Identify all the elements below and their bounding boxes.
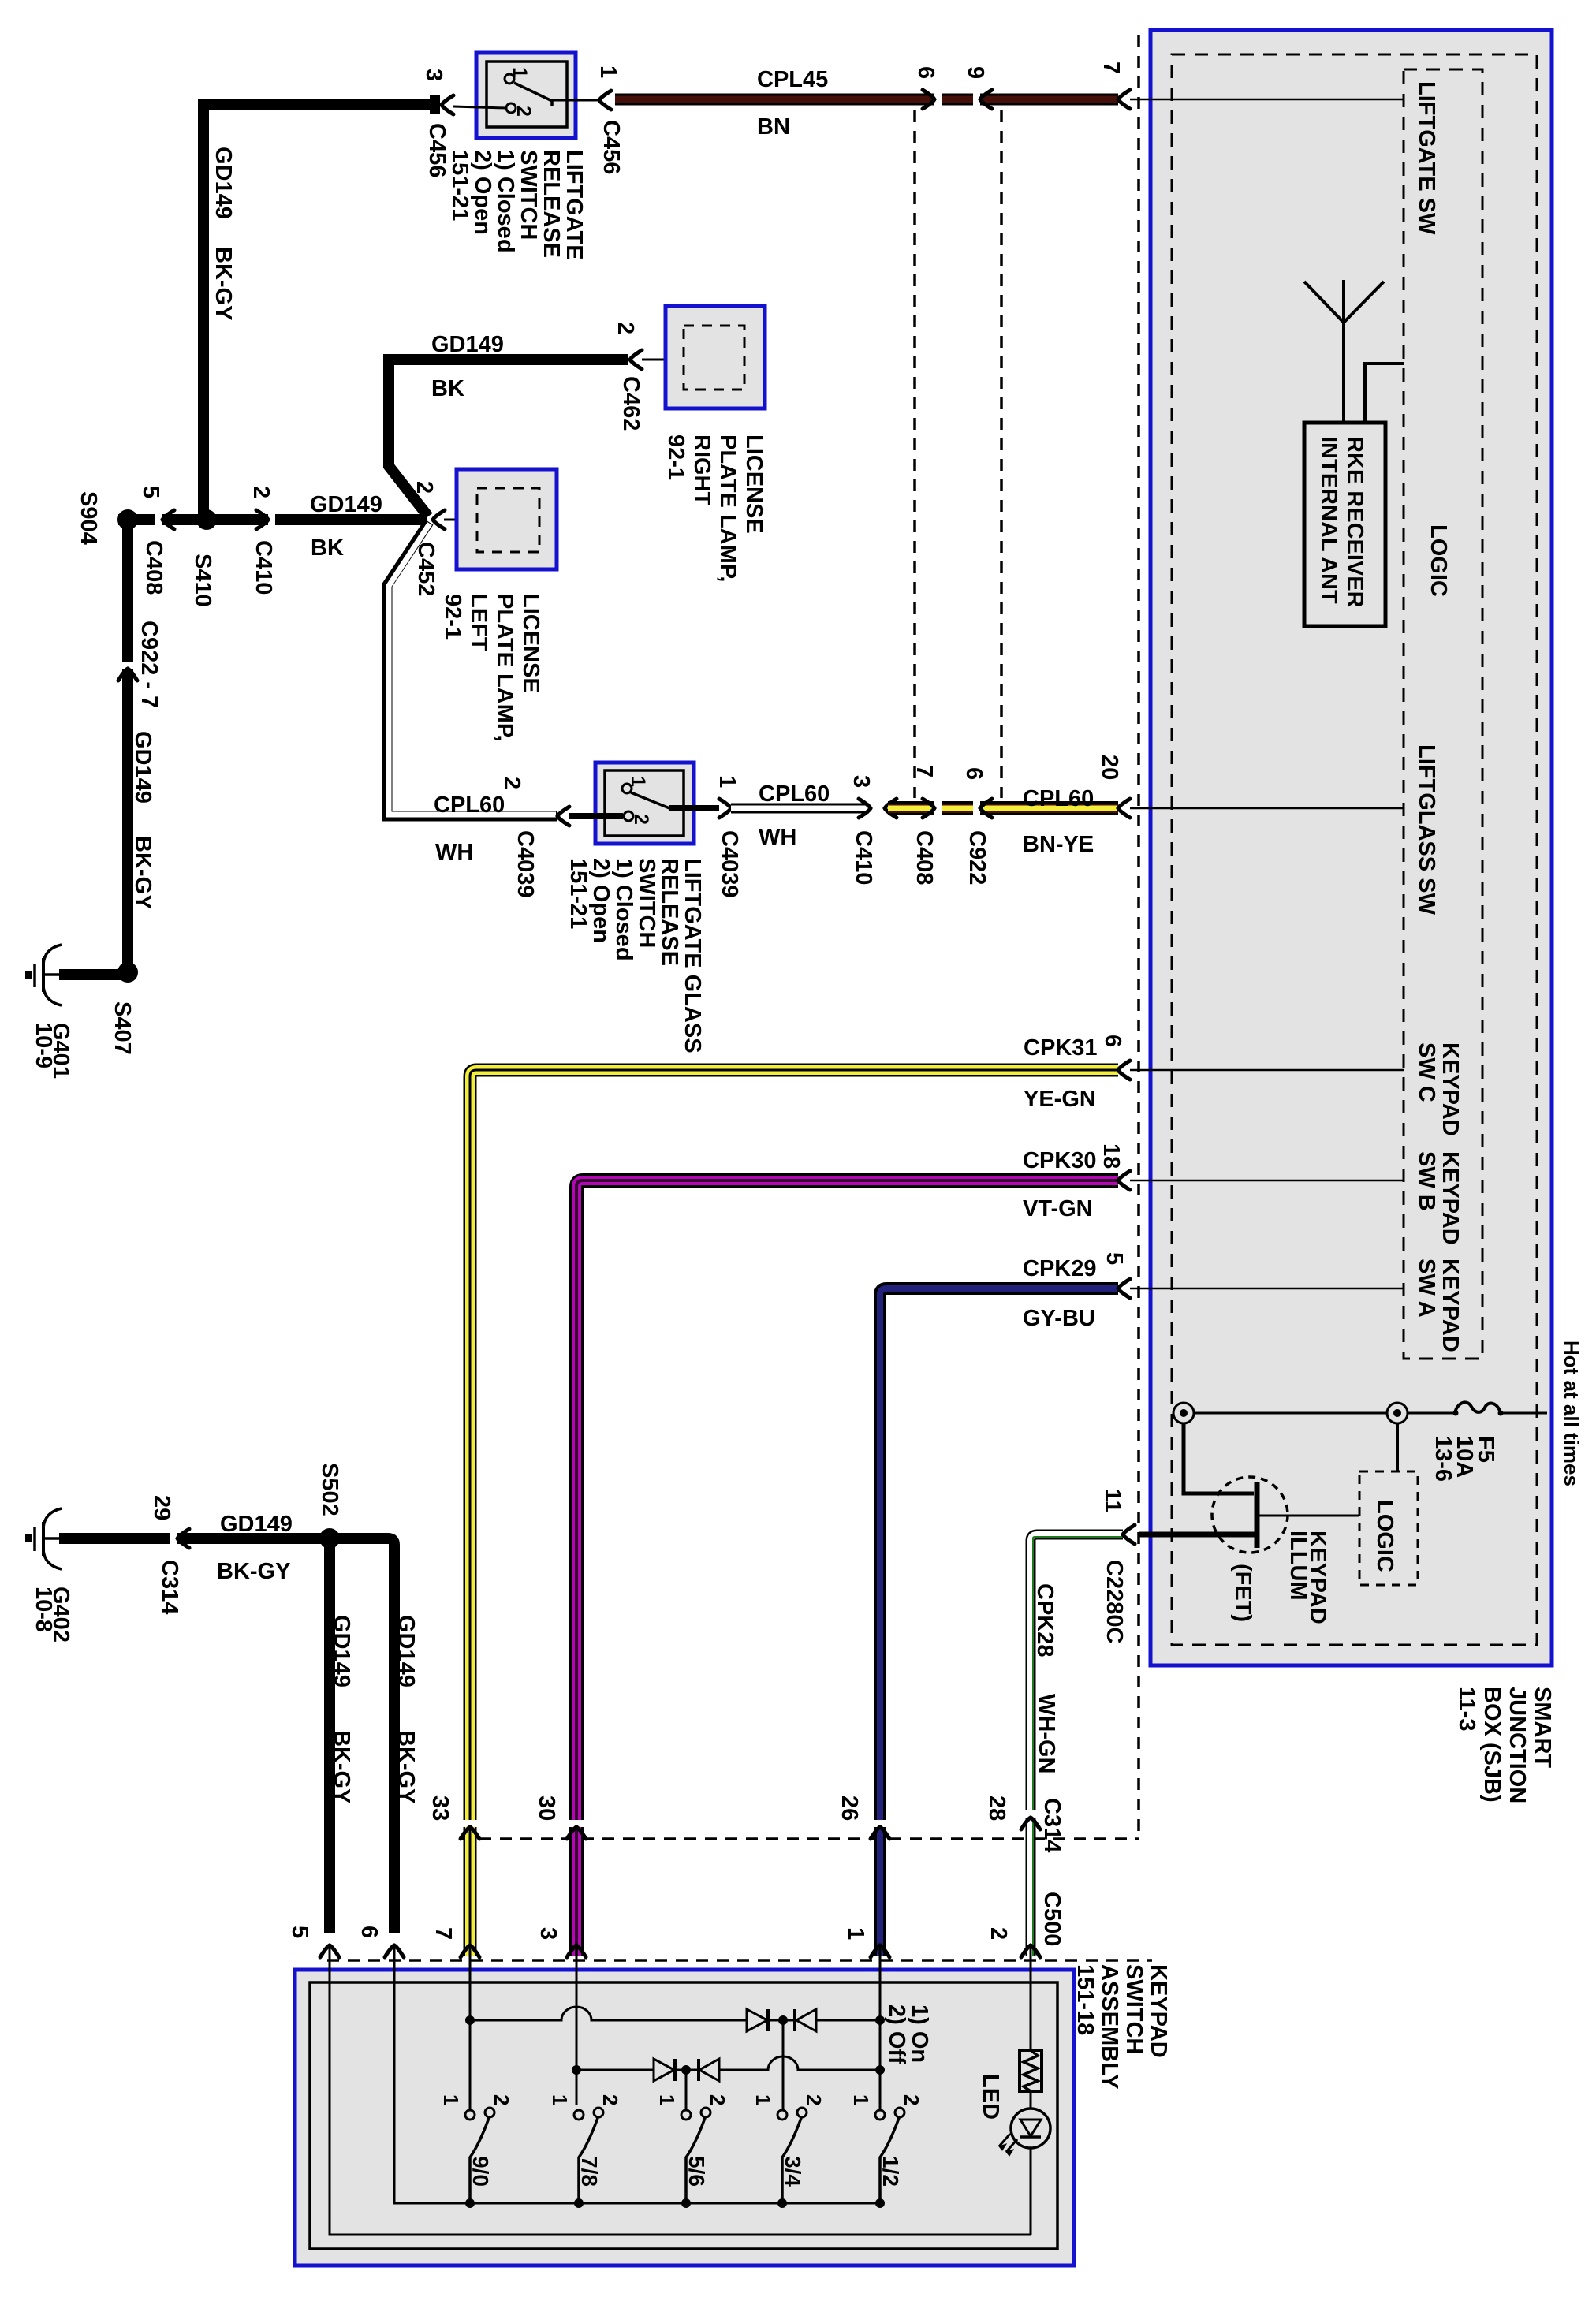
connector break 9 C922 — [973, 91, 980, 107]
svg-text:S502: S502 — [317, 1463, 342, 1516]
svg-text:5: 5 — [138, 486, 163, 498]
wire bus1 tap to switch 3/4 — [782, 2020, 785, 2110]
svg-text:LIFTGLASS SW: LIFTGLASS SW — [1414, 744, 1439, 915]
connector C408 pin 5 — [155, 511, 162, 528]
svg-text:C452: C452 — [413, 542, 438, 596]
wire to switch pin2 — [453, 106, 506, 108]
svg-text:7: 7 — [431, 1927, 456, 1940]
svg-text:18: 18 — [1098, 1143, 1124, 1169]
svg-text:2: 2 — [613, 322, 638, 334]
wire CPK28 WH-GN — [1031, 1534, 1123, 1956]
svg-text:7: 7 — [1098, 62, 1124, 74]
svg-text:GY-BU: GY-BU — [1023, 1306, 1095, 1331]
smart junction box SJB outline — [1150, 30, 1552, 1665]
connector break 28 C314 — [1024, 1810, 1038, 1818]
svg-text:(FET): (FET) — [1230, 1564, 1255, 1622]
node bus1-990 — [778, 2015, 788, 2025]
svg-text:C314: C314 — [157, 1560, 182, 1614]
wire pin2 LED feed — [1030, 1945, 1032, 2050]
svg-text:CPK30: CPK30 — [1023, 1148, 1097, 1173]
diode D3 — [654, 2059, 674, 2081]
dashed keypad boundary line — [327, 1959, 1152, 1962]
svg-text:7/8: 7/8 — [577, 2156, 602, 2187]
wire T1-T2 — [1194, 1412, 1387, 1415]
keypad switch assembly box — [295, 1970, 1074, 2265]
keypad pin 6 — [385, 1945, 404, 1957]
svg-text:3/4: 3/4 — [781, 2156, 805, 2187]
svg-text:C4039: C4039 — [513, 830, 538, 897]
svg-text:2: 2 — [412, 481, 437, 494]
svg-text:2: 2 — [598, 2094, 622, 2105]
node bus2-870 — [681, 2065, 691, 2075]
svg-text:BK-GY: BK-GY — [217, 1559, 290, 1584]
svg-text:1: 1 — [843, 1927, 868, 1940]
keypad pin 1 — [871, 1945, 889, 1957]
svg-text:1: 1 — [655, 2094, 679, 2105]
connector break 7 C408 — [934, 799, 942, 818]
dashed takeout line left C408 — [913, 110, 916, 798]
resistor R1 — [1020, 2050, 1042, 2091]
svg-text:GD149: GD149 — [393, 1615, 419, 1687]
svg-text:CPK29: CPK29 — [1023, 1256, 1097, 1281]
svg-text:BK: BK — [431, 376, 464, 401]
keypad pin 2 C500 — [1021, 1945, 1040, 1957]
LED DL1 — [1030, 2091, 1032, 2110]
license plate lamp left — [457, 469, 557, 569]
SJB pin 11 keypad illum C2280C — [1123, 1525, 1135, 1544]
svg-text:GD149: GD149 — [220, 1512, 293, 1537]
svg-text:BK-GY: BK-GY — [393, 1730, 419, 1803]
connector break 30 — [567, 1820, 586, 1827]
svg-text:C408: C408 — [912, 830, 937, 885]
svg-text:7: 7 — [912, 765, 937, 777]
wire T2 to logic — [1396, 1423, 1399, 1471]
keypad switch 5/6 — [681, 2110, 691, 2120]
svg-text:1/2: 1/2 — [878, 2156, 903, 2187]
wire GD149 BK-GY keypad pin6 — [330, 1538, 394, 1933]
svg-text:9/0: 9/0 — [468, 2156, 493, 2187]
svg-text:BN-YE: BN-YE — [1023, 832, 1094, 857]
splice S410 — [196, 509, 217, 530]
svg-text:1: 1 — [751, 2094, 775, 2105]
keypad pin 5 — [320, 1945, 339, 1957]
splice S502 — [319, 1528, 340, 1549]
svg-text:5: 5 — [287, 1926, 312, 1938]
svg-text:C462: C462 — [618, 376, 643, 431]
connector C456 pin 1 — [599, 91, 611, 110]
SJB inner logic dashed box — [1404, 69, 1482, 1359]
svg-text:2: 2 — [248, 486, 274, 498]
svg-text:1: 1 — [595, 65, 621, 78]
liftgate glass release switch SW2 — [595, 763, 694, 844]
svg-text:S904: S904 — [76, 491, 101, 545]
svg-text:CPK31: CPK31 — [1024, 1035, 1098, 1061]
svg-text:LOGIC: LOGIC — [1372, 1500, 1397, 1572]
node bus1-596 — [465, 2015, 475, 2025]
svg-text:C410: C410 — [251, 540, 276, 595]
svg-text:S407: S407 — [110, 1001, 135, 1055]
diode D1 — [747, 2009, 767, 2031]
SJB pin 5 keypad sw a — [1118, 1279, 1130, 1298]
svg-text:2: 2 — [490, 2094, 513, 2105]
wire GD149 BK S904-S410-C452 — [118, 514, 427, 525]
keypad switch 1/2 — [875, 2110, 885, 2120]
svg-text:C456: C456 — [424, 123, 449, 177]
svg-text:GD149: GD149 — [310, 492, 382, 517]
svg-text:S410: S410 — [190, 554, 215, 607]
svg-text:LOGIC: LOGIC — [1426, 524, 1451, 597]
svg-text:BK-GY: BK-GY — [329, 1730, 354, 1803]
svg-text:CPL60: CPL60 — [434, 792, 505, 818]
wire CPK30 VT-GN — [576, 1180, 1118, 1956]
svg-text:C314: C314 — [1039, 1798, 1065, 1852]
svg-text:C4039: C4039 — [717, 830, 742, 897]
keypad switch 3/4 — [777, 2110, 787, 2120]
ground G401 — [35, 945, 62, 1005]
SJB outer dashed box — [1172, 54, 1537, 1645]
wire GD149 BK-GY from C456-3 to S410 — [203, 105, 430, 520]
svg-text:GD149: GD149 — [431, 332, 504, 357]
connector C314 pin 29 — [170, 1530, 177, 1547]
diode D4 — [699, 2059, 719, 2081]
svg-text:1: 1 — [849, 2094, 873, 2105]
keypad pin 3 — [567, 1945, 586, 1957]
svg-text:BK-GY: BK-GY — [130, 836, 155, 909]
connector C456 pin 3 — [442, 95, 453, 114]
wire bus2 tap to switch 5/6 — [685, 2070, 688, 2110]
svg-text:2: 2 — [706, 2094, 729, 2105]
wire pin1 into keypad — [879, 1945, 882, 2110]
wire keypad pin5 to LED — [330, 1945, 1031, 2235]
keypad bus row2 — [576, 2056, 880, 2070]
wire CPK31 YE-GN — [470, 1070, 1118, 1956]
svg-text:5/6: 5/6 — [684, 2156, 709, 2187]
dashed takeout line C922 — [1000, 110, 1003, 798]
SJB pin 20 liftglass sw — [1118, 799, 1130, 818]
wire keypad pin6 to common bus — [394, 1945, 880, 2203]
svg-text:26: 26 — [837, 1795, 862, 1821]
svg-text:CPL60: CPL60 — [1023, 786, 1094, 811]
logic dashed box small — [1359, 1471, 1418, 1585]
svg-text:GD149: GD149 — [130, 731, 155, 804]
svg-text:11: 11 — [1100, 1489, 1125, 1513]
svg-text:Hot at all times: Hot at all times — [1560, 1341, 1583, 1486]
connector break 26 — [871, 1820, 889, 1827]
ground G402 — [44, 1537, 59, 1540]
keypad bus row1 — [470, 2007, 880, 2020]
svg-text:YE-GN: YE-GN — [1024, 1087, 1096, 1112]
svg-text:2: 2 — [630, 814, 652, 825]
connector C4039 pin 2 — [557, 807, 569, 826]
svg-text:20: 20 — [1097, 755, 1122, 780]
svg-text:CPK28: CPK28 — [1032, 1583, 1057, 1657]
svg-text:C500: C500 — [1039, 1892, 1065, 1946]
dashed SJB boundary line — [1137, 35, 1140, 1839]
svg-text:6: 6 — [1100, 1035, 1125, 1047]
wire switch to C456-1 — [552, 99, 598, 102]
svg-text:1: 1 — [439, 2094, 463, 2105]
svg-text:6: 6 — [913, 66, 938, 79]
svg-text:BK: BK — [311, 535, 344, 561]
svg-text:3: 3 — [421, 69, 446, 81]
bus terminal node T2 — [1387, 1403, 1408, 1423]
svg-text:28: 28 — [984, 1795, 1009, 1821]
svg-text:6: 6 — [356, 1926, 382, 1938]
connector break 33 — [461, 1820, 479, 1827]
svg-text:BN: BN — [757, 114, 790, 140]
dashed C314 boundary line — [459, 1837, 1139, 1840]
svg-text:VT-GN: VT-GN — [1023, 1196, 1093, 1221]
wire LED to ground trace — [1030, 2148, 1032, 2235]
svg-text:C408: C408 — [141, 540, 166, 595]
svg-text:C922: C922 — [964, 830, 990, 885]
license plate lamp right — [666, 306, 765, 408]
transistor Q1 FET — [1212, 1477, 1288, 1553]
splice S904 — [117, 509, 138, 530]
node bus2-1116 — [875, 2065, 885, 2075]
connector C4039 pin 1 — [719, 799, 731, 818]
svg-text:2: 2 — [986, 1927, 1011, 1940]
node bus1-1116 — [875, 2015, 885, 2025]
svg-text:3: 3 — [535, 1927, 561, 1940]
svg-text:30: 30 — [534, 1795, 559, 1821]
svg-text:5: 5 — [1102, 1252, 1127, 1265]
svg-text:RKE RECEIVERINTERNAL ANT: RKE RECEIVERINTERNAL ANT — [1316, 436, 1367, 608]
wire GD149 BK-GY from G402 to S502 — [59, 1533, 330, 1544]
svg-text:1: 1 — [548, 2094, 572, 2105]
svg-text:CPL45: CPL45 — [757, 67, 828, 92]
SJB pin 18 keypad sw b — [1118, 1171, 1130, 1190]
liftgate release switch SW1 — [476, 53, 576, 138]
svg-text:9: 9 — [963, 66, 988, 79]
wire switch to C4039-1 — [669, 805, 719, 811]
node bus2-731 — [572, 2065, 581, 2075]
bus terminal node T1 — [1173, 1403, 1194, 1423]
wire pin3 into keypad — [576, 1945, 578, 2105]
svg-text:LIFTGATE SW: LIFTGATE SW — [1414, 81, 1439, 235]
connector break C922-7 — [119, 662, 136, 669]
svg-text:BK-GY: BK-GY — [211, 247, 236, 320]
wire S407 to G401 — [59, 969, 128, 980]
connector break 6 C922 — [973, 799, 980, 818]
wire GD149 BK-GY keypad pin5 — [324, 1538, 335, 1933]
wire CPL60 WH from C452 to switch — [387, 522, 557, 816]
svg-text:33: 33 — [427, 1795, 453, 1821]
SJB pin 6 keypad sw c — [1118, 1061, 1130, 1080]
RKE receiver U-RKE — [1304, 423, 1385, 626]
svg-text:1: 1 — [627, 776, 649, 787]
connector C410 pin 2 — [268, 511, 275, 528]
svg-text:WH-GN: WH-GN — [1034, 1694, 1059, 1773]
antenna ANT — [1304, 280, 1404, 423]
wire CPL60 WH right — [731, 804, 869, 814]
svg-text:3: 3 — [848, 775, 874, 788]
wire CPL60 BN-YE — [888, 801, 1118, 815]
connector C452 pin 2 — [433, 510, 445, 529]
wire pin7 into keypad — [469, 1945, 472, 2110]
svg-text:C2280C: C2280C — [1102, 1560, 1127, 1643]
wire GD149 BK from C462 — [389, 360, 628, 516]
svg-text:29: 29 — [149, 1495, 174, 1520]
fuse F5 10A — [1408, 1412, 1455, 1415]
keypad pin 7 — [461, 1945, 479, 1957]
svg-text:2: 2 — [802, 2094, 826, 2105]
svg-text:1: 1 — [714, 775, 740, 788]
wire CPK29 GY-BU — [880, 1288, 1118, 1956]
svg-text:6: 6 — [961, 767, 986, 780]
svg-text:2: 2 — [499, 777, 524, 789]
wire fuse to Hot at all times — [1501, 1412, 1547, 1415]
wire GD149 to ground G401 — [122, 520, 133, 972]
svg-text:1: 1 — [509, 67, 531, 78]
svg-text:WH: WH — [435, 840, 473, 865]
svg-text:GD149: GD149 — [329, 1615, 354, 1687]
diode D2 — [796, 2009, 816, 2031]
svg-text:1) On2) Off: 1) On2) Off — [884, 2004, 932, 2064]
svg-text:GD149: GD149 — [211, 147, 236, 219]
connector C410 pin 3 — [872, 798, 883, 818]
keypad switch 7/8 — [574, 2110, 584, 2120]
wire CPL45 BN — [615, 94, 1118, 106]
SJB pin 7 liftgate sw — [1118, 90, 1130, 109]
svg-text:2: 2 — [513, 106, 535, 117]
svg-text:C456: C456 — [598, 120, 624, 174]
svg-text:C922 - 7: C922 - 7 — [136, 621, 162, 708]
connector break 6 C408 — [934, 91, 942, 107]
svg-text:WH: WH — [759, 825, 796, 850]
splice S407 — [117, 962, 138, 983]
keypad switch 9/0 — [465, 2110, 475, 2120]
connector C462 pin 2 — [630, 350, 642, 369]
wire FET drain to pin 11 — [1139, 1532, 1255, 1538]
svg-text:LED: LED — [978, 2074, 1003, 2120]
svg-text:2: 2 — [900, 2094, 923, 2105]
svg-text:CPL60: CPL60 — [759, 781, 830, 807]
svg-text:C410: C410 — [851, 830, 876, 885]
